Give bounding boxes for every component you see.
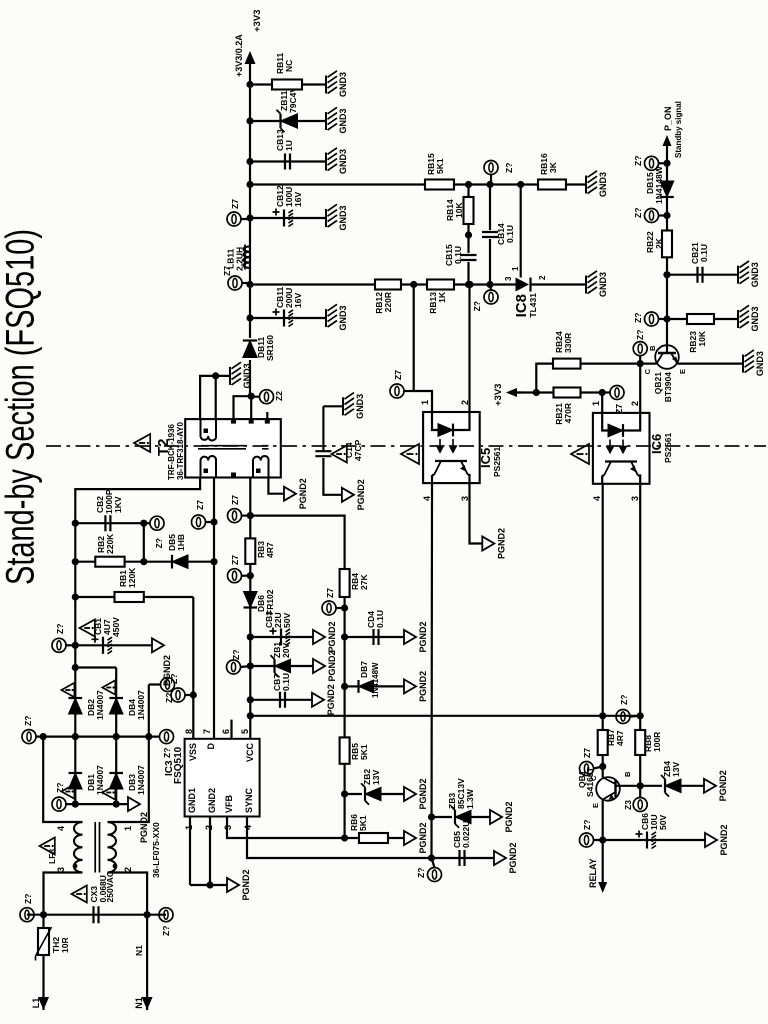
svg-text:3K: 3K xyxy=(548,161,558,173)
diode DB15 1N4148W xyxy=(645,165,674,204)
wire +3V3 output rail xyxy=(246,64,253,338)
arrow +3V3 rail output xyxy=(234,10,263,77)
svg-text:B: B xyxy=(623,771,632,777)
capacitor CB11 200U 16V xyxy=(250,286,326,326)
ground PGND2 for IC5 pin3 xyxy=(482,528,506,559)
line filter LF3 windings xyxy=(44,822,134,915)
svg-text:100R: 100R xyxy=(652,732,662,752)
supply arrow +3V3 to opto drive xyxy=(493,384,554,406)
warning triangle CX3 label xyxy=(72,871,116,903)
wire RB24 to QB21 collector xyxy=(581,360,657,367)
svg-text:1K: 1K xyxy=(437,291,447,303)
signal arrow RELAY xyxy=(588,858,607,893)
resistor RB2 220K xyxy=(75,533,144,567)
resistor RB7 4R7 xyxy=(598,729,625,755)
capacitor CB21 0.1U xyxy=(667,242,738,283)
controller IC3 FSQ510 xyxy=(185,739,260,817)
svg-text:Z2: Z2 xyxy=(274,391,284,401)
ground PGND2 for ZB4 xyxy=(704,770,728,801)
svg-text:GND2: GND2 xyxy=(207,788,217,813)
resistor RB15 5K1 xyxy=(425,153,454,190)
test point Z7 at ZB1 node xyxy=(227,650,251,674)
svg-text:PGND2: PGND2 xyxy=(298,478,308,509)
svg-text:+3V3/0.2A: +3V3/0.2A xyxy=(234,34,244,77)
wire IC8 ref pin xyxy=(511,185,521,278)
capacitor CB15 0.1U xyxy=(444,231,477,284)
svg-text:PGND2: PGND2 xyxy=(327,621,337,652)
pin 3 VFB wire xyxy=(223,817,345,839)
zener ZB1 20V xyxy=(250,642,313,677)
svg-text:1HB: 1HB xyxy=(176,534,186,551)
svg-text:Z?: Z? xyxy=(633,156,643,166)
wire IC6 pin4 to VCC node xyxy=(602,484,604,716)
wire VCC distribution riser xyxy=(250,712,644,719)
capacitor CB13 1U xyxy=(250,129,326,170)
test point Z7 at P_ON xyxy=(633,156,667,171)
svg-text:LF3: LF3 xyxy=(47,849,57,864)
svg-text:5: 5 xyxy=(240,729,250,734)
test point Z7 on negative column xyxy=(52,783,66,811)
wire T2 primary return to PGND2 xyxy=(268,478,284,494)
svg-text:TL431: TL431 xyxy=(528,293,538,318)
wire RB12 node to IC5 anode xyxy=(414,285,432,413)
wire P_ON chain xyxy=(663,149,670,323)
svg-text:330R: 330R xyxy=(563,333,573,353)
svg-text:5K1: 5K1 xyxy=(358,815,368,831)
svg-text:1.3W: 1.3W xyxy=(465,788,475,809)
test point Z7 bottom of bridge column xyxy=(160,730,174,758)
resistor RB11 NC xyxy=(250,52,326,89)
label IC3 FSQ510 xyxy=(164,746,184,784)
ground GND3 QB21 emitter xyxy=(743,350,765,376)
svg-text:0.1U: 0.1U xyxy=(281,673,291,691)
wire drain line FSQ510 pin7 to T2 xyxy=(210,478,217,739)
svg-text:B: B xyxy=(648,345,657,351)
test point Z7 before DB15 xyxy=(633,208,667,223)
test point Z7 on SYNC line xyxy=(416,858,442,882)
capacitor CB12 100U 16V xyxy=(250,185,326,227)
resistor RB8 100R xyxy=(635,716,662,786)
terminal L1 xyxy=(31,997,49,1010)
wire divider chain from rail xyxy=(250,181,586,188)
svg-text:GND3: GND3 xyxy=(338,305,348,330)
wire LF3 pin1 to bridge AC node xyxy=(108,685,160,823)
resistor RB13 1K xyxy=(427,280,454,314)
transistor QB1 S4160T xyxy=(577,766,644,840)
test point Z7 QB21 base node xyxy=(633,312,667,326)
svg-text:BT3904: BT3904 xyxy=(663,372,673,403)
wire IC5 pin4 stub xyxy=(431,483,433,495)
pin 1 GND1 wire xyxy=(184,817,194,886)
svg-text:0.1U: 0.1U xyxy=(505,225,515,243)
svg-text:Z?: Z? xyxy=(619,695,629,705)
svg-text:C: C xyxy=(643,368,652,374)
resistor RB12 220R xyxy=(374,280,401,314)
test point Z7 QB1 collector xyxy=(580,748,603,776)
svg-text:47CP: 47CP xyxy=(353,439,363,461)
svg-text:450V: 450V xyxy=(111,617,121,637)
svg-text:220K: 220K xyxy=(105,533,115,554)
wire N1 to AC node xyxy=(134,915,147,1010)
svg-text:Z3: Z3 xyxy=(623,800,633,810)
svg-text:27K: 27K xyxy=(359,574,369,590)
ground PGND2 for ZB2 xyxy=(404,778,428,809)
ground PGND2 for DB7 xyxy=(404,671,428,702)
svg-text:5K1: 5K1 xyxy=(435,158,445,174)
wire IC6 pin2 to QB21 collector xyxy=(639,364,641,413)
zener ZB3 85C13V xyxy=(432,778,491,828)
test point Z7 on VSS line xyxy=(169,674,193,702)
warning triangle LF3 label xyxy=(40,838,58,865)
svg-text:SYNC: SYNC xyxy=(244,787,254,813)
svg-text:Z?: Z? xyxy=(154,538,164,548)
capacitor CX3 0.068U 250VAC xyxy=(94,906,99,923)
capacitor CB2 1000P 1KV xyxy=(75,489,144,531)
warning triangle C14 label xyxy=(332,439,364,462)
svg-text:Z7: Z7 xyxy=(230,495,240,505)
label IC6 PS2561 xyxy=(649,432,673,463)
svg-text:P_ON: P_ON xyxy=(663,106,673,131)
test point Z7 on drain line xyxy=(192,500,215,529)
resistor RB24 330R xyxy=(553,331,581,369)
diode DB2 1N4007 xyxy=(61,668,105,737)
pin 4 SYNC wire xyxy=(243,817,494,862)
svg-text:0.1U: 0.1U xyxy=(375,610,385,628)
svg-text:13V: 13V xyxy=(671,762,681,777)
test point Z7 relay node xyxy=(580,820,603,847)
ground GND3 for IC8 xyxy=(586,271,608,297)
resistor RB14 10K xyxy=(445,185,474,236)
wire RB21 to IC6 pin1 xyxy=(581,389,606,413)
svg-text:0.1U: 0.1U xyxy=(699,244,709,262)
svg-text:Z?: Z? xyxy=(231,650,241,660)
wire + DC bus xyxy=(72,478,200,672)
wire to RB24 xyxy=(536,364,553,393)
test point Z7 at RB12 node xyxy=(222,266,250,290)
svg-text:GND3: GND3 xyxy=(598,172,608,197)
svg-text:PGND2: PGND2 xyxy=(418,822,428,853)
svg-text:1N4007: 1N4007 xyxy=(95,765,105,795)
svg-text:Z?: Z? xyxy=(23,894,33,904)
svg-text:S4160T: S4160T xyxy=(585,766,595,797)
test point Z7 after DB6 xyxy=(228,555,251,583)
resistor RB5 5K1 xyxy=(340,737,369,763)
pin 5 VCC stub xyxy=(240,729,250,734)
optocoupler IC6 PS2561 xyxy=(591,401,650,501)
test point Z7 on DC bus xyxy=(52,624,75,653)
svg-text:2K: 2K xyxy=(654,237,664,249)
pin 7 D stub xyxy=(202,729,212,734)
ground PGND2 for CB3 xyxy=(313,621,337,652)
svg-text:VSS: VSS xyxy=(188,743,198,761)
svg-text:1: 1 xyxy=(123,826,133,831)
wire LF3 pin2 to N node xyxy=(108,873,147,915)
svg-text:36-LF075-XX0: 36-LF075-XX0 xyxy=(151,822,161,878)
wire RB7 to QB1 collector xyxy=(599,716,606,778)
inductor LB11 2.2UH xyxy=(226,245,251,272)
ground PGND2 for ZB3 xyxy=(490,801,514,832)
svg-text:4: 4 xyxy=(56,826,66,831)
svg-text:250VAC: 250VAC xyxy=(105,871,115,903)
ground PGND2 for CD4 xyxy=(404,621,428,652)
svg-text:50V: 50V xyxy=(658,815,668,830)
ground PGND2 bridge negative xyxy=(128,797,149,843)
svg-text:IC5: IC5 xyxy=(478,448,493,468)
diode DB1 1N4007 xyxy=(61,737,105,805)
svg-text:8: 8 xyxy=(184,729,194,734)
svg-text:2: 2 xyxy=(538,275,547,280)
title Stand-by Section (FSQ510) xyxy=(0,229,43,585)
svg-text:1: 1 xyxy=(420,400,430,405)
test point Z7 QB21 collector xyxy=(633,330,647,364)
thermistor TH2 10R xyxy=(36,927,71,961)
wire snubber node xyxy=(140,520,147,566)
svg-text:RELAY: RELAY xyxy=(588,858,598,888)
ground PGND2 for ZB1 xyxy=(313,650,337,681)
svg-text:SR160: SR160 xyxy=(265,335,275,361)
ground GND3 for RB11 xyxy=(326,71,348,97)
svg-text:PGND2: PGND2 xyxy=(719,824,729,855)
wire AC L input xyxy=(42,955,44,1010)
test point Z7 VFB chain xyxy=(322,588,345,615)
wire LF3 pin3 to L node xyxy=(44,873,83,915)
warning triangle IC6 xyxy=(571,444,589,464)
optocoupler IC5 PS2561 xyxy=(420,400,480,501)
svg-text:Z?: Z? xyxy=(635,330,645,340)
test point Z7 IC6 pin1 xyxy=(602,386,624,414)
svg-text:D: D xyxy=(206,743,216,750)
capacitor CB14 0.1U xyxy=(482,185,515,285)
svg-text:E: E xyxy=(591,803,600,808)
svg-text:PGND2: PGND2 xyxy=(496,528,506,559)
svg-text:Z7: Z7 xyxy=(230,199,240,209)
wire IC5 pin3 to PGND2 xyxy=(470,483,483,543)
svg-text:2: 2 xyxy=(630,401,640,406)
svg-text:+3V3: +3V3 xyxy=(493,384,504,406)
ground PGND2 for CB7 xyxy=(312,684,336,715)
svg-text:16V: 16V xyxy=(293,192,303,207)
ground PGND2 for CB1 xyxy=(152,638,172,686)
ground GND3 divider bottom xyxy=(586,171,608,197)
svg-text:PGND2: PGND2 xyxy=(356,479,366,510)
diode DB3 1N4007 xyxy=(102,737,146,805)
svg-text:PGND2: PGND2 xyxy=(508,842,518,873)
warning triangle T2 label xyxy=(134,434,172,456)
wire bridge negative column xyxy=(65,801,128,808)
ground PGND2 for GND pins xyxy=(227,869,251,900)
capacitor CB6 10U 50V xyxy=(603,813,705,849)
svg-text:Z7: Z7 xyxy=(582,748,592,758)
svg-text:1: 1 xyxy=(511,266,520,271)
svg-text:Z?: Z? xyxy=(161,926,171,936)
svg-text:GND3: GND3 xyxy=(338,108,348,133)
svg-text:5K1: 5K1 xyxy=(359,744,369,760)
ground GND3 for CB11 xyxy=(326,304,348,330)
svg-text:PGND2: PGND2 xyxy=(327,650,337,681)
svg-text:1N4007: 1N4007 xyxy=(136,765,146,795)
svg-text:Z7: Z7 xyxy=(325,588,335,598)
svg-text:Z7: Z7 xyxy=(393,370,403,380)
svg-text:1N4007: 1N4007 xyxy=(136,690,146,720)
svg-text:0.1U: 0.1U xyxy=(453,246,463,264)
wire IC5 cathode to RB13 node xyxy=(468,285,470,413)
svg-text:220R: 220R xyxy=(383,292,393,312)
svg-text:Z?: Z? xyxy=(162,748,172,758)
signal arrow P_ON xyxy=(663,101,684,158)
resistor RB3 4R7 xyxy=(245,538,275,564)
warning triangle CB1 label xyxy=(80,617,122,637)
svg-text:PGND2: PGND2 xyxy=(139,812,149,843)
resistor RB1 120K xyxy=(75,567,193,602)
wire QB1 emitter node xyxy=(599,836,606,877)
ground GND3 for C14 xyxy=(323,393,365,419)
svg-text:3: 3 xyxy=(630,496,640,501)
svg-text:Z?: Z? xyxy=(472,301,482,311)
svg-text:2: 2 xyxy=(460,400,470,405)
svg-text:10K: 10K xyxy=(697,330,707,346)
svg-text:4R7: 4R7 xyxy=(265,542,275,558)
ground PGND2 primary return xyxy=(284,478,308,509)
shunt regulator IC8 TL431 xyxy=(504,275,547,318)
wire VFB feedback chain xyxy=(250,516,348,842)
capacitor CB7 0.1U xyxy=(250,673,312,708)
svg-text:QB21: QB21 xyxy=(653,372,663,394)
zener ZB11 79C4V7 xyxy=(250,82,326,132)
wire VCC line FSQ510 pin5 to T2 aux xyxy=(247,478,254,739)
svg-text:1N4148W: 1N4148W xyxy=(654,165,664,204)
ground GND3 for ZB11 xyxy=(326,107,348,133)
resistor RB6 5K1 xyxy=(345,814,404,843)
svg-text:Z?: Z? xyxy=(633,208,643,218)
test point Z7 feedback node xyxy=(472,285,498,312)
svg-text:FSQ510: FSQ510 xyxy=(173,746,184,784)
svg-text:Z7: Z7 xyxy=(230,555,240,565)
svg-text:PGND2: PGND2 xyxy=(418,671,428,702)
wire IC5 pin4 to SYNC xyxy=(428,495,435,858)
wire bridge AC column xyxy=(36,733,160,740)
svg-text:DB7: DB7 xyxy=(359,661,369,678)
wire IC6 pin3 to RB8 node xyxy=(639,484,641,716)
svg-text:E: E xyxy=(678,369,687,374)
pin 2 GND2 wire xyxy=(190,817,227,889)
svg-text:PGND2: PGND2 xyxy=(241,869,251,900)
svg-text:Z?: Z? xyxy=(504,163,514,173)
wire TH2 to AC node xyxy=(42,915,44,928)
svg-text:PGND2: PGND2 xyxy=(418,778,428,809)
test point Z7 at T2 aux junction xyxy=(228,495,251,523)
svg-text:3: 3 xyxy=(504,276,513,281)
svg-text:GND3: GND3 xyxy=(355,394,365,419)
wire feedback node column xyxy=(250,281,586,288)
capacitor C14 47CP xyxy=(315,406,342,495)
wire T2 secondary winding to DB11 xyxy=(234,360,255,419)
capacitor CB3 22U 50V xyxy=(250,611,313,646)
zener ZB4 13V xyxy=(640,761,704,797)
svg-text:GND1: GND1 xyxy=(187,788,197,813)
ground PGND2 for CB5 xyxy=(494,842,518,873)
svg-text:3: 3 xyxy=(56,867,66,872)
svg-text:PGND2: PGND2 xyxy=(718,770,728,801)
ground GND3 for CB12 xyxy=(326,204,348,230)
ground GND3 for CB21 xyxy=(738,261,760,287)
svg-text:Z?: Z? xyxy=(55,783,65,793)
test point Z7 at CB12 node xyxy=(227,199,250,226)
svg-text:Z7: Z7 xyxy=(195,500,205,510)
test point Z7 at N bridge node xyxy=(161,678,175,704)
svg-text:Z?: Z? xyxy=(55,624,65,634)
resistor RB23 10K xyxy=(667,314,738,353)
svg-text:VFB: VFB xyxy=(224,794,234,813)
resistor RB21 470R xyxy=(554,388,581,425)
terminal N1 xyxy=(134,997,153,1010)
svg-text:Z?: Z? xyxy=(633,313,643,323)
label 36-LF075-XX0 xyxy=(151,822,161,878)
wire AC input column xyxy=(27,914,166,916)
warning triangle IC5 xyxy=(401,444,419,464)
diode DB7 1N4148W xyxy=(345,661,404,698)
ground GND3 for CB13 xyxy=(326,148,348,174)
svg-text:Stand-by Section (FSQ510): Stand-by Section (FSQ510) xyxy=(0,229,43,585)
diode DB4 1N4007 xyxy=(102,668,146,737)
svg-text:0.022U: 0.022U xyxy=(461,821,471,848)
svg-text:4: 4 xyxy=(592,496,602,501)
test point Z7 IC5 anode xyxy=(390,370,414,398)
svg-text:NC: NC xyxy=(284,60,294,72)
svg-text:Z?: Z? xyxy=(416,868,426,878)
svg-text:PGND2: PGND2 xyxy=(326,684,336,715)
diode DB5 1HB snubber xyxy=(144,534,214,569)
svg-text:1KV: 1KV xyxy=(113,496,123,513)
label IC5 PS2561 xyxy=(478,446,502,477)
svg-text:Z?: Z? xyxy=(23,716,33,726)
wire QB21 emitter to GND3 xyxy=(678,362,744,364)
zener ZB2 13V xyxy=(345,769,404,805)
svg-text:2: 2 xyxy=(123,867,133,872)
svg-text:TRF-BCK-1936: TRF-BCK-1936 xyxy=(167,423,176,480)
stub T2 pin nc xyxy=(266,412,268,419)
svg-text:7: 7 xyxy=(202,729,212,734)
ground GND3 secondary return xyxy=(230,362,252,388)
diode DB11 SR160 xyxy=(243,335,275,361)
test point Z7 on N line xyxy=(159,908,173,936)
svg-text:GND3: GND3 xyxy=(755,351,765,376)
transistor QB21 BT3904 xyxy=(643,319,687,402)
svg-text:PGND2: PGND2 xyxy=(418,621,428,652)
test point Z7 on L line xyxy=(20,894,34,922)
capacitor CD4 0.1U xyxy=(345,610,404,645)
svg-text:10R: 10R xyxy=(60,937,70,953)
test point Z7 divider xyxy=(484,161,514,185)
svg-text:4: 4 xyxy=(422,496,432,501)
resistor RB16 3K xyxy=(538,153,566,190)
svg-text:Z7: Z7 xyxy=(222,266,232,276)
svg-text:VCC: VCC xyxy=(245,743,255,763)
ground PGND2 for RB6 xyxy=(404,822,428,853)
svg-text:470R: 470R xyxy=(563,403,573,423)
svg-text:1N4148W: 1N4148W xyxy=(371,662,380,698)
svg-text:1N4007: 1N4007 xyxy=(95,690,105,720)
svg-text:13V: 13V xyxy=(371,770,381,785)
pin 8 VSS stub xyxy=(184,729,194,734)
svg-text:L1: L1 xyxy=(31,998,41,1009)
test point Z7 VCC QB1 node xyxy=(616,695,640,724)
svg-text:IC6: IC6 xyxy=(649,434,664,454)
wire LF3 pin4 to bridge AC node xyxy=(43,737,82,822)
capacitor CB1 4U7 450V xyxy=(75,636,152,654)
svg-text:10K: 10K xyxy=(454,202,464,218)
svg-text:2.2UH: 2.2UH xyxy=(235,247,245,271)
svg-text:N1: N1 xyxy=(134,997,144,1009)
